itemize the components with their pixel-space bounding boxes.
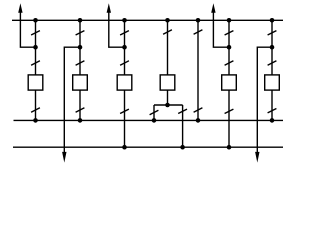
node column 1 middle bus	[33, 118, 38, 123]
disconnector S13	[194, 30, 203, 34]
disconnector S7	[120, 31, 129, 35]
node column 3 junction	[122, 45, 127, 50]
wire column 2 upper	[79, 20, 81, 75]
node column 1 junction	[33, 45, 38, 50]
node column 3 top bus	[122, 18, 127, 23]
disconnector S16	[225, 61, 234, 65]
wire column 1 upper	[35, 20, 37, 75]
fuse F2	[73, 75, 88, 90]
wire column 5 upper	[228, 20, 230, 75]
disconnector S9	[120, 109, 129, 113]
disconnector S1	[31, 31, 40, 35]
disconnector S11	[150, 110, 159, 114]
disconnector S5	[76, 61, 85, 65]
disconnector S3	[31, 108, 40, 112]
bottom busbar	[13, 146, 283, 148]
wire column 1 lower	[35, 90, 37, 120]
wire column 4 left branch	[153, 105, 155, 120]
node column 6 top bus	[270, 18, 275, 23]
wire outgoing branch D1	[64, 47, 80, 153]
fuse F3	[117, 75, 132, 90]
wire column 4 below fuse	[167, 90, 169, 105]
disconnector S19	[268, 61, 277, 65]
node column 5 bottom bus	[227, 145, 232, 150]
fuse F1	[28, 75, 43, 90]
disconnector S6	[76, 108, 85, 112]
top busbar	[12, 19, 283, 21]
outgoing feeder arrow D1	[62, 152, 66, 163]
node column 4 split junction	[165, 103, 170, 108]
node column 2 top bus	[78, 18, 83, 23]
wire column 5 lower	[228, 90, 230, 147]
wire column 3 upper	[124, 20, 126, 75]
incoming feeder arrow A3	[211, 3, 215, 13]
node column 6 middle bus	[270, 118, 275, 123]
incoming feeder arrow A1	[18, 3, 22, 13]
outgoing feeder arrow D2	[255, 152, 259, 163]
node column 1 top bus	[33, 18, 38, 23]
disconnector S17	[225, 109, 234, 113]
node column 4 top bus	[165, 18, 170, 23]
disconnector S20	[268, 109, 277, 113]
wire feeder A1 tap	[20, 12, 35, 48]
wire bus tie column	[197, 20, 199, 120]
node column 4 left branch middle bus	[152, 118, 157, 123]
node column 2 middle bus	[78, 118, 83, 123]
incoming feeder arrow A2	[107, 3, 111, 13]
fuse F6	[265, 75, 280, 90]
disconnector S2	[31, 61, 40, 65]
node bus tie middle bus	[196, 118, 201, 123]
node bus tie top bus	[196, 18, 201, 23]
disconnector S8	[120, 61, 129, 65]
node column 3 bottom bus	[122, 145, 127, 150]
wire column 3 lower	[124, 90, 126, 147]
wire feeder A2 tap	[109, 12, 125, 48]
disconnector S18	[268, 31, 277, 35]
fuse F4	[160, 75, 175, 90]
node column 2 junction	[78, 45, 83, 50]
wire column 2 lower	[79, 90, 81, 120]
wire outgoing branch D2	[257, 47, 272, 153]
wire column 6 upper	[271, 20, 273, 75]
disconnector S12	[178, 109, 187, 113]
wire feeder A3 tap	[213, 12, 229, 48]
wire column 6 lower	[271, 90, 273, 120]
disconnector S15	[225, 31, 234, 35]
node column 4 right branch bottom bus	[180, 145, 185, 150]
wire column 4 right branch	[182, 105, 184, 147]
node column 6 junction	[270, 45, 275, 50]
node column 5 top bus	[227, 18, 232, 23]
fuse F5	[222, 75, 237, 90]
disconnector S14	[194, 108, 203, 112]
middle busbar	[14, 119, 284, 121]
wire column 4 split horizontal	[154, 104, 183, 106]
wire column 4 upper	[167, 20, 169, 75]
node column 5 junction	[227, 45, 232, 50]
disconnector S4	[76, 31, 85, 35]
disconnector S10	[163, 30, 172, 34]
